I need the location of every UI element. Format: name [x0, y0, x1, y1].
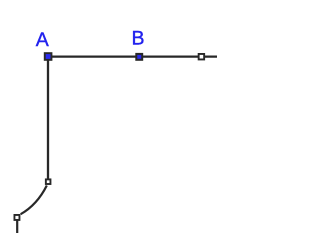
svg-text:B: B	[132, 28, 145, 50]
node B marker (filled blue square)	[136, 54, 142, 60]
wire vertical from node A down	[47, 57, 49, 179]
node handle right (hollow square)	[199, 54, 205, 60]
node A marker (filled blue square)	[45, 53, 52, 60]
wire horizontal from node A to right edge	[48, 55, 217, 57]
svg-text:A: A	[36, 29, 49, 51]
wire vertical to bottom edge	[16, 221, 18, 234]
node handle bottom (hollow square)	[14, 215, 19, 220]
wire curve segment	[21, 186, 47, 215]
node handle middle (hollow square)	[46, 179, 51, 184]
